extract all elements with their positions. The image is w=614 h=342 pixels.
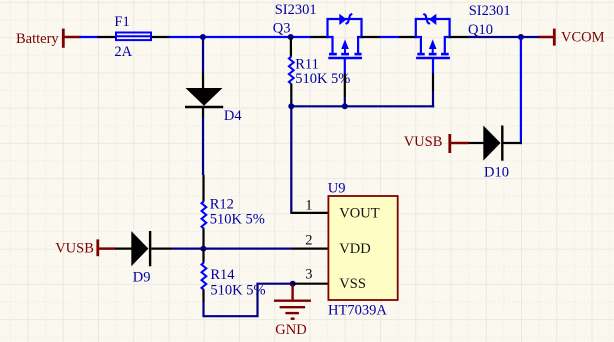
wire D10 pin anode xyxy=(469,142,484,144)
svg-text:U9: U9 xyxy=(328,181,346,197)
svg-text:D9: D9 xyxy=(133,269,151,285)
svg-text:SI2301: SI2301 xyxy=(275,2,317,18)
resistor R12 xyxy=(202,201,207,228)
wire Q3 pin left xyxy=(311,36,328,38)
svg-text:2A: 2A xyxy=(114,44,132,60)
transistor Q10 xyxy=(416,14,450,73)
svg-text:510K 5%: 510K 5% xyxy=(295,71,350,87)
wire D4 branch xyxy=(202,37,204,72)
svg-text:Q10: Q10 xyxy=(468,22,493,38)
wire F1 to Q3 xyxy=(169,36,311,38)
wire Q3 pin right xyxy=(362,36,381,38)
svg-text:HT7039A: HT7039A xyxy=(328,302,387,318)
node junction R11 gate net xyxy=(288,103,294,109)
diode D9 xyxy=(131,231,150,266)
svg-text:3: 3 xyxy=(305,266,312,282)
node VCOM port xyxy=(539,29,605,46)
wire U9 pin 2 xyxy=(293,248,329,250)
fuse F1 xyxy=(115,33,152,41)
node junction VCOM xyxy=(518,34,524,40)
node VUSB port right xyxy=(404,134,469,153)
wire D10 pin cathode xyxy=(503,142,522,144)
wire D4 pin top xyxy=(202,72,204,89)
svg-text:F1: F1 xyxy=(114,14,129,30)
wire Q10 gate pin xyxy=(432,73,434,91)
svg-text:VDD: VDD xyxy=(339,241,370,257)
svg-text:1: 1 xyxy=(305,197,312,213)
node junction D4 xyxy=(200,34,206,40)
svg-text:VUSB: VUSB xyxy=(404,134,443,150)
svg-text:VOUT: VOUT xyxy=(339,206,379,222)
resistor R14 xyxy=(202,263,207,290)
node junction GND xyxy=(290,281,296,287)
wire Battery to F1 xyxy=(80,36,99,38)
svg-text:Q3: Q3 xyxy=(273,21,291,37)
wire Q10 pin right xyxy=(450,36,469,38)
node Battery port xyxy=(16,29,81,48)
wire Q10 pin left xyxy=(399,36,416,38)
wire D9 to VDD xyxy=(172,248,293,250)
svg-text:D4: D4 xyxy=(224,108,242,124)
ground GND xyxy=(274,284,311,338)
svg-text:D10: D10 xyxy=(484,164,509,180)
wire F1 pin left xyxy=(98,36,116,38)
wire R11 pin top xyxy=(290,37,292,57)
svg-text:VCOM: VCOM xyxy=(561,30,605,46)
wire F1 pin right xyxy=(152,36,170,38)
svg-text:VSS: VSS xyxy=(339,276,366,292)
op-amp U9 body xyxy=(328,196,397,300)
wire D9 pin anode xyxy=(115,248,131,250)
wire R14 to VSS route xyxy=(204,284,294,317)
node junction R11 xyxy=(288,34,294,40)
wire R14 pin bottom xyxy=(202,290,204,302)
svg-text:Battery: Battery xyxy=(16,31,59,47)
wire Q10 gate to net xyxy=(432,91,434,107)
wire D4 to R12 xyxy=(202,118,204,176)
wire R14 pin top xyxy=(202,249,204,263)
wire gate net to VOUT vertical xyxy=(290,106,292,214)
node junction Q3 gate xyxy=(342,103,348,109)
wire U9 pin 1 xyxy=(291,212,328,214)
svg-text:GND: GND xyxy=(275,322,306,338)
wire R12 pin top xyxy=(202,175,204,202)
svg-text:2: 2 xyxy=(305,232,312,248)
transistor Q3 xyxy=(328,14,363,73)
svg-text:VUSB: VUSB xyxy=(55,240,94,256)
wire Q10 to VCOM xyxy=(468,36,539,38)
wire Q3 to Q10 xyxy=(380,36,399,38)
diode D10 xyxy=(483,126,502,161)
wire U9 pin 3 xyxy=(293,283,329,285)
svg-text:510K 5%: 510K 5% xyxy=(210,212,265,228)
wire D9 pin cathode xyxy=(151,248,172,250)
svg-text:SI2301: SI2301 xyxy=(469,3,511,19)
wire Q3 gate to net xyxy=(344,97,346,106)
node junction VDD net xyxy=(200,246,206,252)
svg-text:R12: R12 xyxy=(210,196,234,212)
wire Q3 gate pin xyxy=(344,73,346,97)
wire D4 pin bottom xyxy=(202,108,204,118)
svg-text:R14: R14 xyxy=(210,267,235,283)
node VUSB port left xyxy=(55,239,115,256)
wire gate net horizontal xyxy=(289,105,434,107)
diode D4 xyxy=(185,88,223,107)
resistor R11 xyxy=(289,57,294,84)
wire VCOM to D10 xyxy=(520,37,522,144)
wire R12 pin bottom xyxy=(202,228,204,248)
wire R11 pin bottom xyxy=(290,84,292,107)
